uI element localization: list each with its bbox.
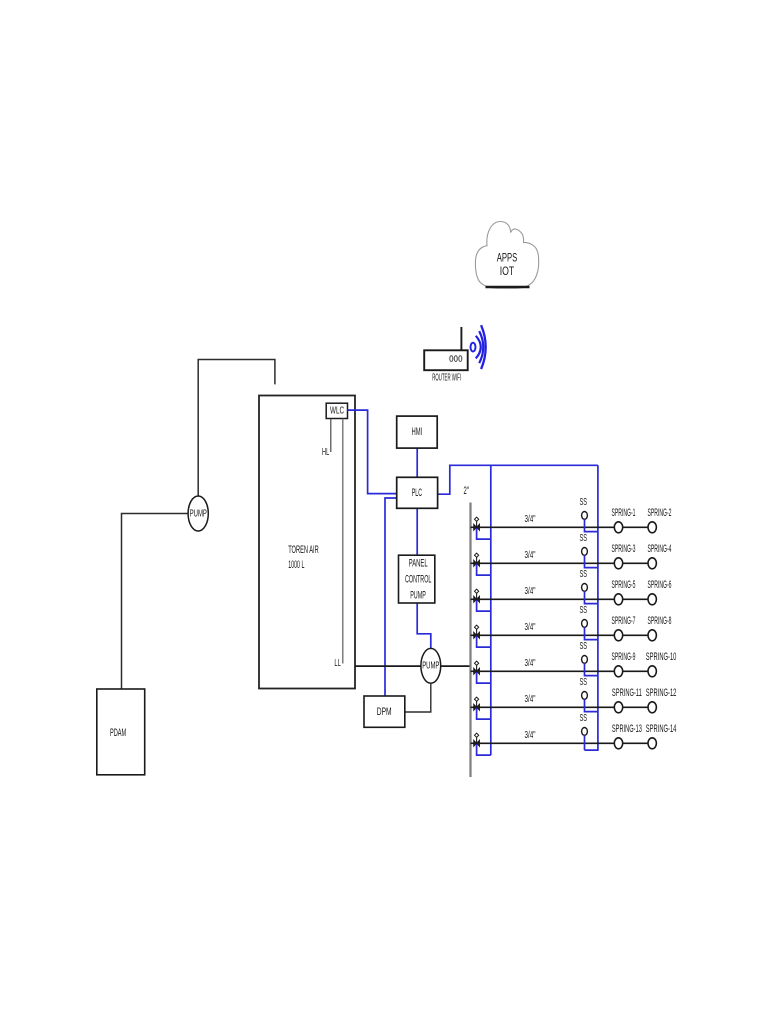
svg-text:SS: SS: [580, 497, 588, 508]
branch pipe row 6 (3/4"): [471, 706, 653, 708]
sprinkler SPRING-9: [612, 651, 636, 677]
valve V3: [474, 589, 480, 602]
branch pipe row 1 (3/4"): [471, 526, 653, 528]
WLC level controller box: [326, 403, 347, 418]
pipe: pump to manifold: [441, 665, 471, 667]
sprinkler SPRING-4: [648, 543, 672, 569]
svg-text:SPRING-10: SPRING-10: [646, 651, 677, 663]
wire: PLC to manifold bus: [438, 465, 598, 494]
wire: solenoid row 3 to bus: [585, 591, 598, 603]
svg-text:PUMP: PUMP: [190, 508, 207, 519]
svg-text:2": 2": [464, 485, 469, 497]
solenoid SS row 7: [580, 713, 588, 736]
svg-text:CONTROL: CONTROL: [405, 574, 432, 586]
solenoid SS row 6: [580, 677, 588, 700]
wire: valve V1 to bus: [477, 528, 491, 539]
svg-text:SPRING-8: SPRING-8: [648, 615, 672, 627]
svg-text:SPRING-12: SPRING-12: [646, 687, 677, 699]
wire: panel to pump motor: [417, 603, 431, 648]
sprinkler SPRING-11: [612, 687, 642, 713]
svg-text:PANEL: PANEL: [409, 557, 428, 569]
DPM box: [364, 696, 405, 727]
sprinkler SPRING-5: [612, 579, 636, 605]
sprinkler SPRING-7: [612, 615, 636, 641]
solenoid SS row 1: [580, 497, 588, 520]
branch pipe row 5 (3/4"): [471, 670, 653, 672]
svg-text:SPRING-2: SPRING-2: [648, 507, 672, 519]
pipe: tank LL outlet to pump: [355, 665, 421, 667]
svg-text:ROUTER WIFI: ROUTER WIFI: [432, 372, 461, 383]
svg-text:1000 L: 1000 L: [288, 559, 304, 571]
solenoid SS row 4: [580, 605, 588, 628]
HL probe: [330, 419, 332, 453]
svg-text:SS: SS: [580, 569, 588, 580]
svg-text:SPRING-6: SPRING-6: [648, 579, 672, 591]
valve V7: [474, 733, 480, 746]
wire: solenoid row 7 to bus: [584, 735, 586, 750]
solenoid SS row 3: [580, 569, 588, 592]
valve V4: [474, 625, 480, 638]
wire: PLC to panel control pump: [416, 508, 418, 555]
svg-text:SPRING-7: SPRING-7: [612, 615, 636, 627]
svg-text:SPRING-1: SPRING-1: [612, 507, 636, 519]
svg-text:WLC: WLC: [330, 405, 344, 416]
cloud APPS IOT: [475, 222, 538, 289]
svg-text:SPRING-13: SPRING-13: [612, 723, 642, 735]
valve V2: [474, 553, 480, 566]
svg-text:SPRING-4: SPRING-4: [648, 543, 672, 555]
svg-text:SS: SS: [580, 641, 588, 652]
wire: pump to DPM: [405, 683, 431, 712]
sprinkler SPRING-3: [612, 543, 636, 569]
wire: solenoid row 2 to bus: [585, 555, 598, 567]
svg-text:SS: SS: [580, 533, 588, 544]
sprinkler SPRING-14: [646, 723, 677, 749]
solenoid bus left: [490, 465, 492, 755]
branch pipe row 2 (3/4"): [471, 562, 653, 564]
sprinkler SPRING-6: [648, 579, 672, 605]
svg-text:SS: SS: [580, 605, 588, 616]
pipe: left pump to tank inlet: [198, 360, 275, 497]
svg-text:3/4": 3/4": [525, 514, 536, 525]
svg-text:3/4": 3/4": [525, 550, 536, 561]
svg-text:3/4": 3/4": [525, 658, 536, 669]
PDAM box: [97, 689, 145, 775]
wire: PLC to DPM: [385, 498, 397, 696]
branch pipe row 7 (3/4"): [471, 742, 653, 744]
wire: valve V4 to bus: [477, 636, 491, 647]
svg-text:PDAM: PDAM: [110, 727, 126, 739]
sprinkler SPRING-10: [646, 651, 677, 677]
valve V5: [474, 661, 480, 674]
wire: valve V5 to bus: [477, 672, 491, 683]
manifold riser pipe 2in: [469, 503, 471, 778]
wifi signal icon: [471, 325, 486, 369]
pipe: PDAM to left pump: [122, 514, 189, 690]
svg-text:SS: SS: [580, 713, 588, 724]
pump P2 (main): [421, 648, 441, 683]
svg-text:SPRING-9: SPRING-9: [612, 651, 636, 663]
sprinkler SPRING-8: [648, 615, 672, 641]
svg-text:HL: HL: [322, 447, 329, 458]
svg-text:3/4": 3/4": [525, 730, 536, 741]
sprinkler SPRING-2: [648, 507, 672, 533]
wire: valve V7 to bus: [477, 744, 491, 755]
sprinkler SPRING-12: [646, 687, 677, 713]
tank TOREN AIR 1000 L: [259, 396, 355, 689]
valve V1: [474, 517, 480, 530]
svg-text:SS: SS: [580, 677, 588, 688]
wire: WLC to PLC: [348, 410, 397, 494]
svg-text:SPRING-3: SPRING-3: [612, 543, 636, 555]
wire: valve V3 to bus: [477, 600, 491, 611]
branch pipe row 3 (3/4"): [471, 598, 653, 600]
svg-text:LL: LL: [334, 658, 341, 669]
LL probe: [342, 419, 344, 664]
PLC box: [397, 477, 438, 508]
svg-text:PLC: PLC: [412, 487, 422, 499]
svg-text:3/4": 3/4": [525, 622, 536, 633]
sprinkler SPRING-1: [612, 507, 636, 533]
svg-text:SPRING-14: SPRING-14: [646, 723, 677, 735]
svg-text:DPM: DPM: [377, 706, 392, 718]
branch pipe row 4 (3/4"): [471, 634, 653, 636]
solenoid SS row 2: [580, 533, 588, 556]
svg-text:APPS: APPS: [497, 251, 518, 265]
wire: solenoid row 5 to bus: [585, 663, 598, 675]
solenoid bus right: [585, 465, 598, 750]
pump P1 (PDAM intake): [188, 496, 208, 531]
svg-text:PUMP: PUMP: [410, 589, 426, 601]
svg-text:HMI: HMI: [412, 426, 423, 438]
svg-text:SPRING-5: SPRING-5: [612, 579, 636, 591]
svg-text:3/4": 3/4": [525, 586, 536, 597]
valve V6: [474, 697, 480, 710]
router wifi: [424, 327, 468, 383]
svg-text:SPRING-11: SPRING-11: [612, 687, 642, 699]
wire: solenoid row 6 to bus: [585, 699, 598, 711]
solenoid SS row 5: [580, 641, 588, 664]
svg-text:3/4": 3/4": [525, 694, 536, 705]
wire: HMI to PLC: [416, 448, 418, 477]
svg-text:TOREN AIR: TOREN AIR: [288, 544, 319, 556]
svg-text:PUMP: PUMP: [422, 661, 439, 672]
wire: valve V6 to bus: [477, 708, 491, 719]
HMI box: [397, 416, 438, 448]
wire: valve V2 to bus: [477, 564, 491, 575]
svg-text:IOT: IOT: [500, 264, 515, 278]
sprinkler SPRING-13: [612, 723, 642, 749]
wire: solenoid row 4 to bus: [585, 627, 598, 639]
wire: solenoid row 1 to bus: [585, 519, 598, 531]
panel control pump box: [399, 555, 435, 603]
